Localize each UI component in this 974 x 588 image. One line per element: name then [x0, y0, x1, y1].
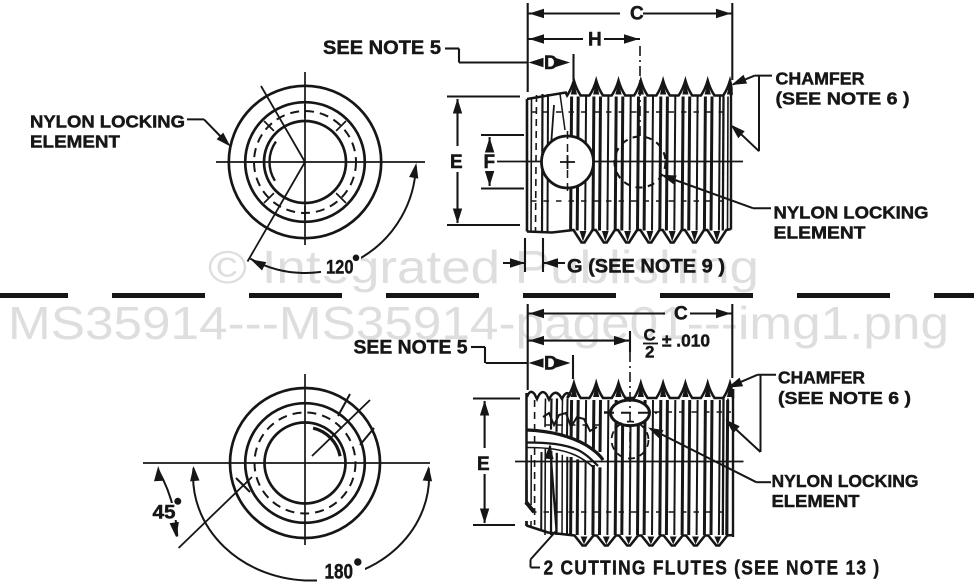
dimension C extension lines: [527, 3, 529, 92]
bottom side view nylon ellipse: [611, 400, 650, 426]
bottom dimension D line: [486, 362, 528, 364]
bottom side view minor dash row left: [545, 424, 600, 426]
top side view left edge: [526, 99, 529, 232]
svg-text:NYLON LOCKING: NYLON LOCKING: [30, 112, 185, 132]
svg-text:180: 180: [325, 560, 354, 584]
cutting flutes leader: [550, 446, 557, 531]
label 45 degrees: [149, 503, 178, 520]
top view bore circle: [264, 121, 346, 203]
top nylon element leader: [753, 207, 771, 209]
svg-text:CHAMFER: CHAMFER: [778, 368, 865, 388]
bottom view flute cut marks: [338, 394, 350, 416]
svg-text:NYLON LOCKING: NYLON LOCKING: [774, 203, 929, 223]
bottom side view right edge: [732, 389, 734, 537]
bottom view dashed thread circle: [255, 413, 356, 514]
dimension G extension lines: [524, 238, 526, 272]
top view vertical centerline: [304, 72, 306, 245]
120 degree dimension arc: [250, 167, 416, 274]
bottom view counterbore circle: [245, 403, 365, 523]
bottom side view horizontal centerline: [515, 461, 744, 463]
bottom side view vertical dash-dot centerline: [629, 352, 631, 470]
svg-text:H: H: [588, 30, 602, 51]
svg-text:SEE NOTE 5: SEE NOTE 5: [323, 38, 441, 59]
bottom side view root outline: [527, 526, 734, 546]
top view nylon element arc: [269, 142, 275, 181]
top side view minor-diameter dash row upper: [531, 111, 729, 113]
svg-text:MS35914---MS35914-page01---img: MS35914---MS35914-page01---img1.png: [8, 297, 949, 349]
white backing 180 label: [317, 556, 365, 583]
bottom view lower-left notch: [236, 478, 250, 492]
svg-text:C: C: [630, 4, 644, 25]
bottom side view thread flank lines: [570, 400, 574, 440]
bottom view nylon element arc: [313, 428, 340, 456]
svg-text:ELEMENT: ELEMENT: [772, 491, 860, 511]
top side view thread flank lines: [571, 97, 572, 231]
bottom side view flute band upper edge: [527, 430, 603, 460]
bottom chamfer leader: [758, 374, 776, 376]
45 degree dimension arc: [158, 470, 177, 536]
bottom side view flute band white fill: [527, 430, 603, 466]
dimension C line: [528, 12, 620, 14]
svg-text:2 CUTTING FLUTES (SEE NOTE 13: 2 CUTTING FLUTES (SEE NOTE 13 ): [544, 557, 881, 580]
bottom dimension E bars: [473, 397, 520, 399]
bottom side view second flute notch: [522, 505, 532, 521]
svg-text:SEE NOTE 5: SEE NOTE 5: [354, 338, 468, 359]
top side view horizontal centerline: [497, 161, 743, 163]
svg-text:2: 2: [645, 343, 654, 362]
180 degree arc arrowheads: [190, 466, 199, 481]
see note 5 top leader: [445, 47, 459, 49]
top side view lead-in lines: [536, 95, 537, 231]
bottom side view lead mini root: [543, 413, 597, 431]
top side view hidden nylon circle: [615, 137, 666, 188]
svg-text:120: 120: [326, 257, 354, 279]
svg-text:45: 45: [153, 502, 176, 524]
svg-text:(SEE NOTE 6 ): (SEE NOTE 6 ): [778, 388, 911, 408]
svg-text:D: D: [544, 354, 558, 375]
svg-text:ELEMENT: ELEMENT: [30, 132, 120, 152]
bottom side view crest outline: [527, 383, 733, 400]
top view upper-left radial line: [261, 86, 305, 162]
top side view root outline: [527, 229, 731, 243]
bottom side view minor dash row upper: [604, 411, 731, 413]
svg-text:E: E: [477, 454, 490, 475]
top side view right edge: [730, 88, 732, 230]
svg-text:E: E: [450, 152, 463, 173]
phantom separator dashed line: [0, 293, 974, 298]
bottom side view minor dash row lower: [531, 511, 731, 513]
top view lower-left radial line: [248, 162, 306, 262]
dimension D line: [459, 61, 528, 63]
dimension F bars: [481, 134, 524, 136]
bottom view vertical centerline: [304, 374, 306, 545]
svg-text:C: C: [674, 304, 688, 325]
nylon hole vertical dash-dot line: [639, 46, 641, 136]
svg-text:CHAMFER: CHAMFER: [776, 69, 865, 89]
bottom view flute radial line: [312, 400, 370, 456]
bottom side view hidden hole dashed circle: [612, 422, 649, 459]
top side view minor-diameter dash row lower: [531, 200, 729, 202]
top view outer circle: [229, 86, 381, 238]
bottom dimension C extension lines: [527, 304, 529, 390]
svg-text:± .010: ± .010: [662, 331, 710, 351]
120 degree arc arrowheads: [409, 163, 418, 179]
bottom dimension C line: [528, 312, 665, 314]
see note 5 bottom leader: [471, 346, 485, 348]
bottom view bore circle: [265, 423, 346, 504]
bottom side view lead dashed line: [534, 400, 536, 525]
top side view crest outline: [527, 81, 732, 100]
bottom side view flute band lower edges: [527, 443, 598, 467]
svg-text:ELEMENT: ELEMENT: [774, 223, 866, 243]
hole center cross: [560, 161, 575, 163]
dimension E bars top view: [447, 95, 520, 97]
45 degree arc arrowheads: [154, 466, 163, 481]
svg-text:F: F: [484, 152, 496, 173]
top chamfer leader: [755, 75, 772, 77]
svg-text:G (SEE NOTE 9 ): G (SEE NOTE 9 ): [567, 257, 725, 278]
bottom view 45 deg diagonal line: [179, 477, 252, 548]
svg-text:D: D: [544, 53, 558, 74]
top view horizontal centerline: [216, 161, 425, 163]
bottom side view left edge: [525, 393, 528, 526]
180 degree dimension arc: [193, 468, 429, 581]
top nylon label leader: [187, 118, 204, 120]
top view dashed thread circle: [254, 111, 356, 213]
svg-text:(SEE NOTE 6 ): (SEE NOTE 6 ): [776, 89, 910, 109]
ellipse center dash: [604, 412, 657, 414]
top side view drilled hole: [542, 136, 594, 188]
dimension E line top view: [456, 99, 458, 146]
bottom dimension C2 line: [528, 340, 630, 342]
hole vertical dash centerline: [567, 131, 569, 193]
white backing for 120 label: [321, 253, 361, 276]
svg-text:NYLON LOCKING: NYLON LOCKING: [772, 471, 919, 491]
bottom dimension E line: [484, 401, 486, 448]
bottom view outer circle: [230, 388, 380, 538]
dimension G arrows: [503, 262, 525, 264]
top view centerline tick marks: [304, 206, 306, 220]
dimension F line: [489, 137, 491, 147]
bottom nylon element leader: [756, 481, 771, 483]
bottom view horizontal centerline: [143, 462, 430, 464]
dimension H line: [528, 38, 583, 40]
top view counterbore circle: [245, 102, 365, 222]
